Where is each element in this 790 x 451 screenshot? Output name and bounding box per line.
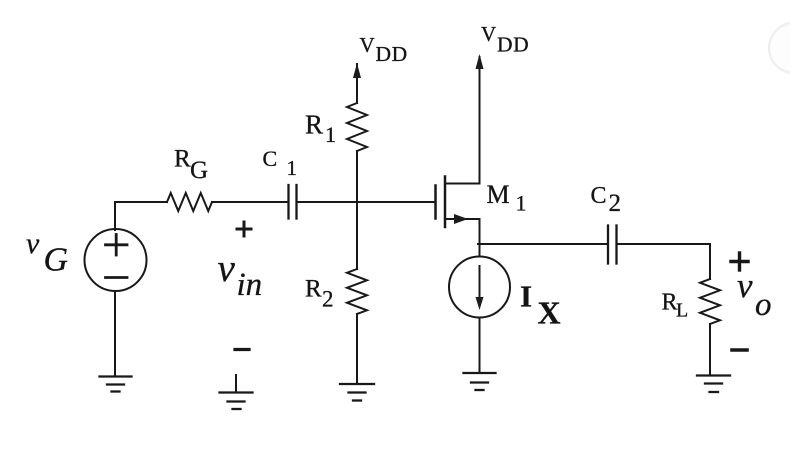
svg-text:R: R <box>305 110 323 140</box>
svg-text:2: 2 <box>322 287 334 312</box>
svg-text:V: V <box>481 22 496 46</box>
svg-text:o: o <box>755 287 772 323</box>
svg-text:V: V <box>360 33 375 57</box>
svg-text:DD: DD <box>376 42 408 66</box>
svg-text:I: I <box>520 279 532 314</box>
svg-text:in: in <box>237 267 263 303</box>
svg-text:M: M <box>487 180 510 209</box>
svg-text:1: 1 <box>516 191 527 216</box>
svg-text:G: G <box>44 242 69 279</box>
svg-text:1: 1 <box>287 156 298 180</box>
svg-text:2: 2 <box>609 190 622 217</box>
svg-text:v: v <box>218 247 236 290</box>
svg-text:R: R <box>305 276 322 303</box>
svg-text:C: C <box>263 146 278 171</box>
svg-text:1: 1 <box>325 122 336 147</box>
svg-text:L: L <box>676 300 688 322</box>
svg-text:R: R <box>174 146 191 173</box>
svg-text:DD: DD <box>497 33 529 57</box>
svg-text:G: G <box>190 157 208 184</box>
svg-text:v: v <box>26 227 40 260</box>
svg-text:X: X <box>538 295 561 331</box>
svg-text:C: C <box>591 183 607 209</box>
svg-text:v: v <box>737 266 753 305</box>
